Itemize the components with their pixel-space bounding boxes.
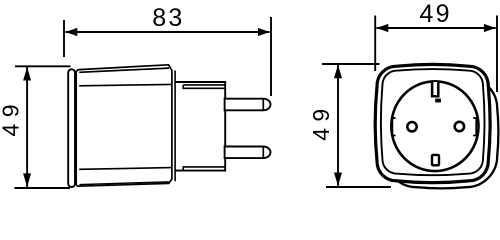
socket recess circle bbox=[391, 81, 478, 171]
dimension 49 (top) extension line left bbox=[374, 16, 376, 72]
dimension 49 (right side) arrow top bbox=[334, 65, 342, 79]
dimension 83 extension line right bbox=[270, 17, 272, 96]
dimension 49 (left) line bbox=[26, 67, 28, 187]
dimension 49 (right side) line bbox=[337, 65, 339, 186]
front flange (side view, left rounded strip) bbox=[68, 69, 75, 187]
dimension 49 (right side) extension line top bbox=[322, 63, 380, 65]
pin hole right bbox=[455, 122, 464, 131]
dimension 49 (left) arrow bottom bbox=[23, 173, 31, 187]
pin bottom bbox=[225, 147, 271, 159]
dimension 49 (top) arrow left bbox=[376, 24, 388, 32]
plug top band line bbox=[183, 84, 225, 86]
body inner bottom line bbox=[79, 168, 172, 170]
front face inner rim bbox=[381, 69, 485, 175]
adapter front face outline bbox=[375, 64, 490, 182]
body inner top line bbox=[79, 84, 172, 85]
dimension 83 extension line left bbox=[63, 20, 65, 57]
right side clip slot bbox=[473, 118, 476, 136]
earth notch bottom bbox=[432, 155, 439, 165]
dimension 49 (right side) extension line bottom bbox=[326, 186, 391, 188]
plug bottom strip bbox=[183, 167, 225, 171]
adapter main body (side view) bbox=[76, 65, 172, 186]
earth notch top bbox=[432, 82, 438, 96]
dimension 83 arrow left bbox=[65, 28, 77, 36]
earth notch top shadow bbox=[435, 99, 441, 103]
body top band second line bbox=[79, 68, 169, 72]
pin bottom dome line bbox=[262, 147, 264, 159]
dimension 49 (left) extension line top bbox=[15, 65, 71, 67]
dimension 83 arrow right bbox=[258, 28, 270, 36]
body bottom band second line bbox=[79, 182, 168, 185]
adapter body behind (offset outline) bbox=[384, 76, 498, 188]
pin top bbox=[225, 99, 271, 111]
dimension 49 (left) arrow top bbox=[23, 67, 31, 81]
schuko plug section (side view) bbox=[175, 82, 225, 171]
dimension 49 (top) extension line right bbox=[496, 16, 498, 93]
left side clip slot bbox=[392, 118, 395, 136]
dimension 83 line bbox=[66, 31, 270, 33]
dimension 49 (left) extension line bottom bbox=[15, 187, 71, 189]
dimension 49 (top) arrow right bbox=[484, 24, 496, 32]
pin hole left bbox=[407, 122, 416, 131]
plug top strip bbox=[183, 85, 225, 88]
body right edge second line bbox=[174, 71, 176, 182]
dimension 49 (right side) arrow bottom bbox=[334, 173, 342, 187]
dimension 49 (top) line bbox=[377, 27, 496, 29]
pin top dome line bbox=[262, 99, 264, 111]
